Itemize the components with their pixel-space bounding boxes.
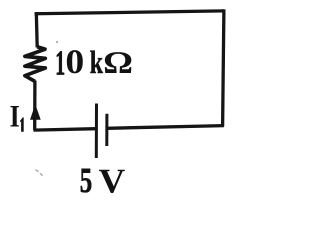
svg-text:k: k (90, 44, 103, 80)
battery left plate (long) (95, 104, 98, 159)
svg-text:1: 1 (55, 43, 65, 82)
svg-text:I: I (10, 99, 20, 134)
wire left upper (35, 12, 39, 47)
svg-text:0: 0 (65, 43, 84, 81)
wire right (223, 9, 224, 126)
svg-text:V: V (99, 161, 126, 200)
wire bottom right (107, 126, 224, 129)
speck: scan noise bottom-left (36, 170, 42, 175)
battery right plate (short) (105, 114, 108, 146)
current arrowhead I1 (31, 106, 40, 120)
speck: dot above 10k label (56, 41, 58, 43)
resistor R (10 kΩ) (25, 47, 45, 82)
svg-text:Ω: Ω (103, 45, 133, 80)
wire top (35, 11, 224, 14)
label I subscript 1 (20, 117, 24, 131)
wire bottom left (34, 129, 97, 130)
svg-text:5: 5 (80, 160, 92, 200)
wire left lower (33, 81, 37, 131)
